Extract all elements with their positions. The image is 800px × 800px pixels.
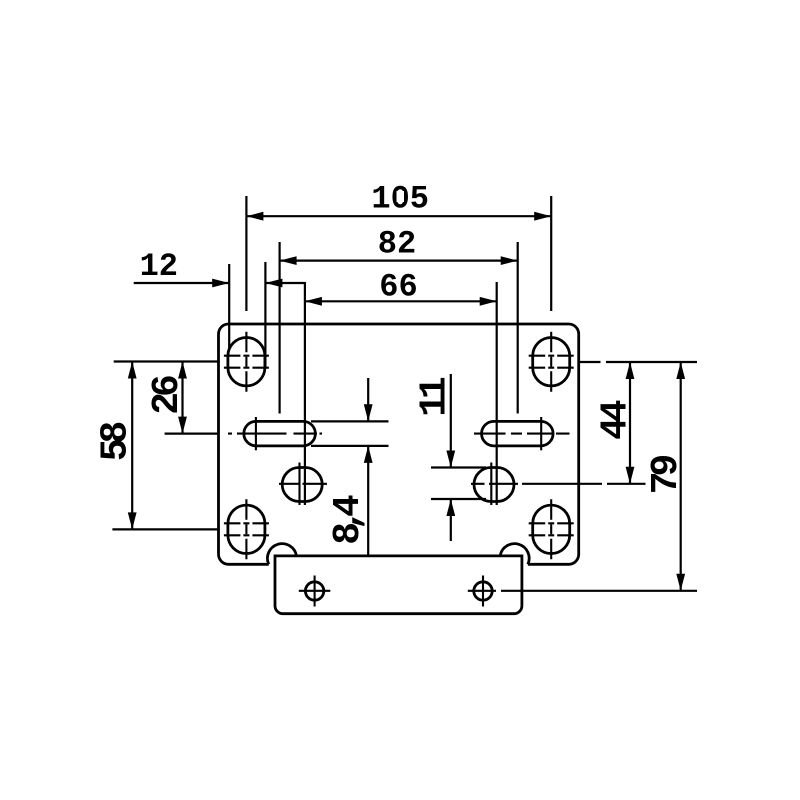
bracket hole left (299, 576, 331, 607)
dim 105 (246, 180, 551, 311)
svg-text:26: 26 (146, 376, 189, 415)
corner slot top-left (224, 332, 269, 392)
bracket hole right (468, 576, 697, 607)
dim 44 (579, 362, 697, 484)
dim 82 (280, 226, 518, 414)
notch left (267, 544, 296, 565)
corner slot bottom-right (529, 499, 574, 559)
svg-text:11: 11 (414, 377, 457, 417)
svg-text:58: 58 (95, 423, 138, 462)
small hole left (279, 463, 327, 506)
dim 11 (414, 374, 487, 541)
corner slot top-right (529, 332, 574, 392)
middle slot left (228, 417, 322, 450)
dim 58 (95, 362, 219, 530)
dim 26 (114, 362, 219, 434)
dim 79 (645, 362, 688, 591)
svg-text:82: 82 (378, 226, 416, 263)
notch right (500, 544, 529, 565)
corner slot bottom-left (224, 499, 269, 559)
dim 8,4 (311, 378, 389, 555)
svg-text:44: 44 (594, 400, 637, 440)
bracket (275, 556, 522, 614)
svg-text:79: 79 (645, 456, 688, 495)
svg-text:66: 66 (379, 269, 417, 306)
plate outline (219, 324, 579, 564)
dim 66 (305, 269, 497, 506)
svg-text:12: 12 (140, 248, 178, 285)
small hole right (471, 463, 646, 506)
dim 12 (134, 248, 305, 368)
middle slot right (474, 417, 570, 450)
